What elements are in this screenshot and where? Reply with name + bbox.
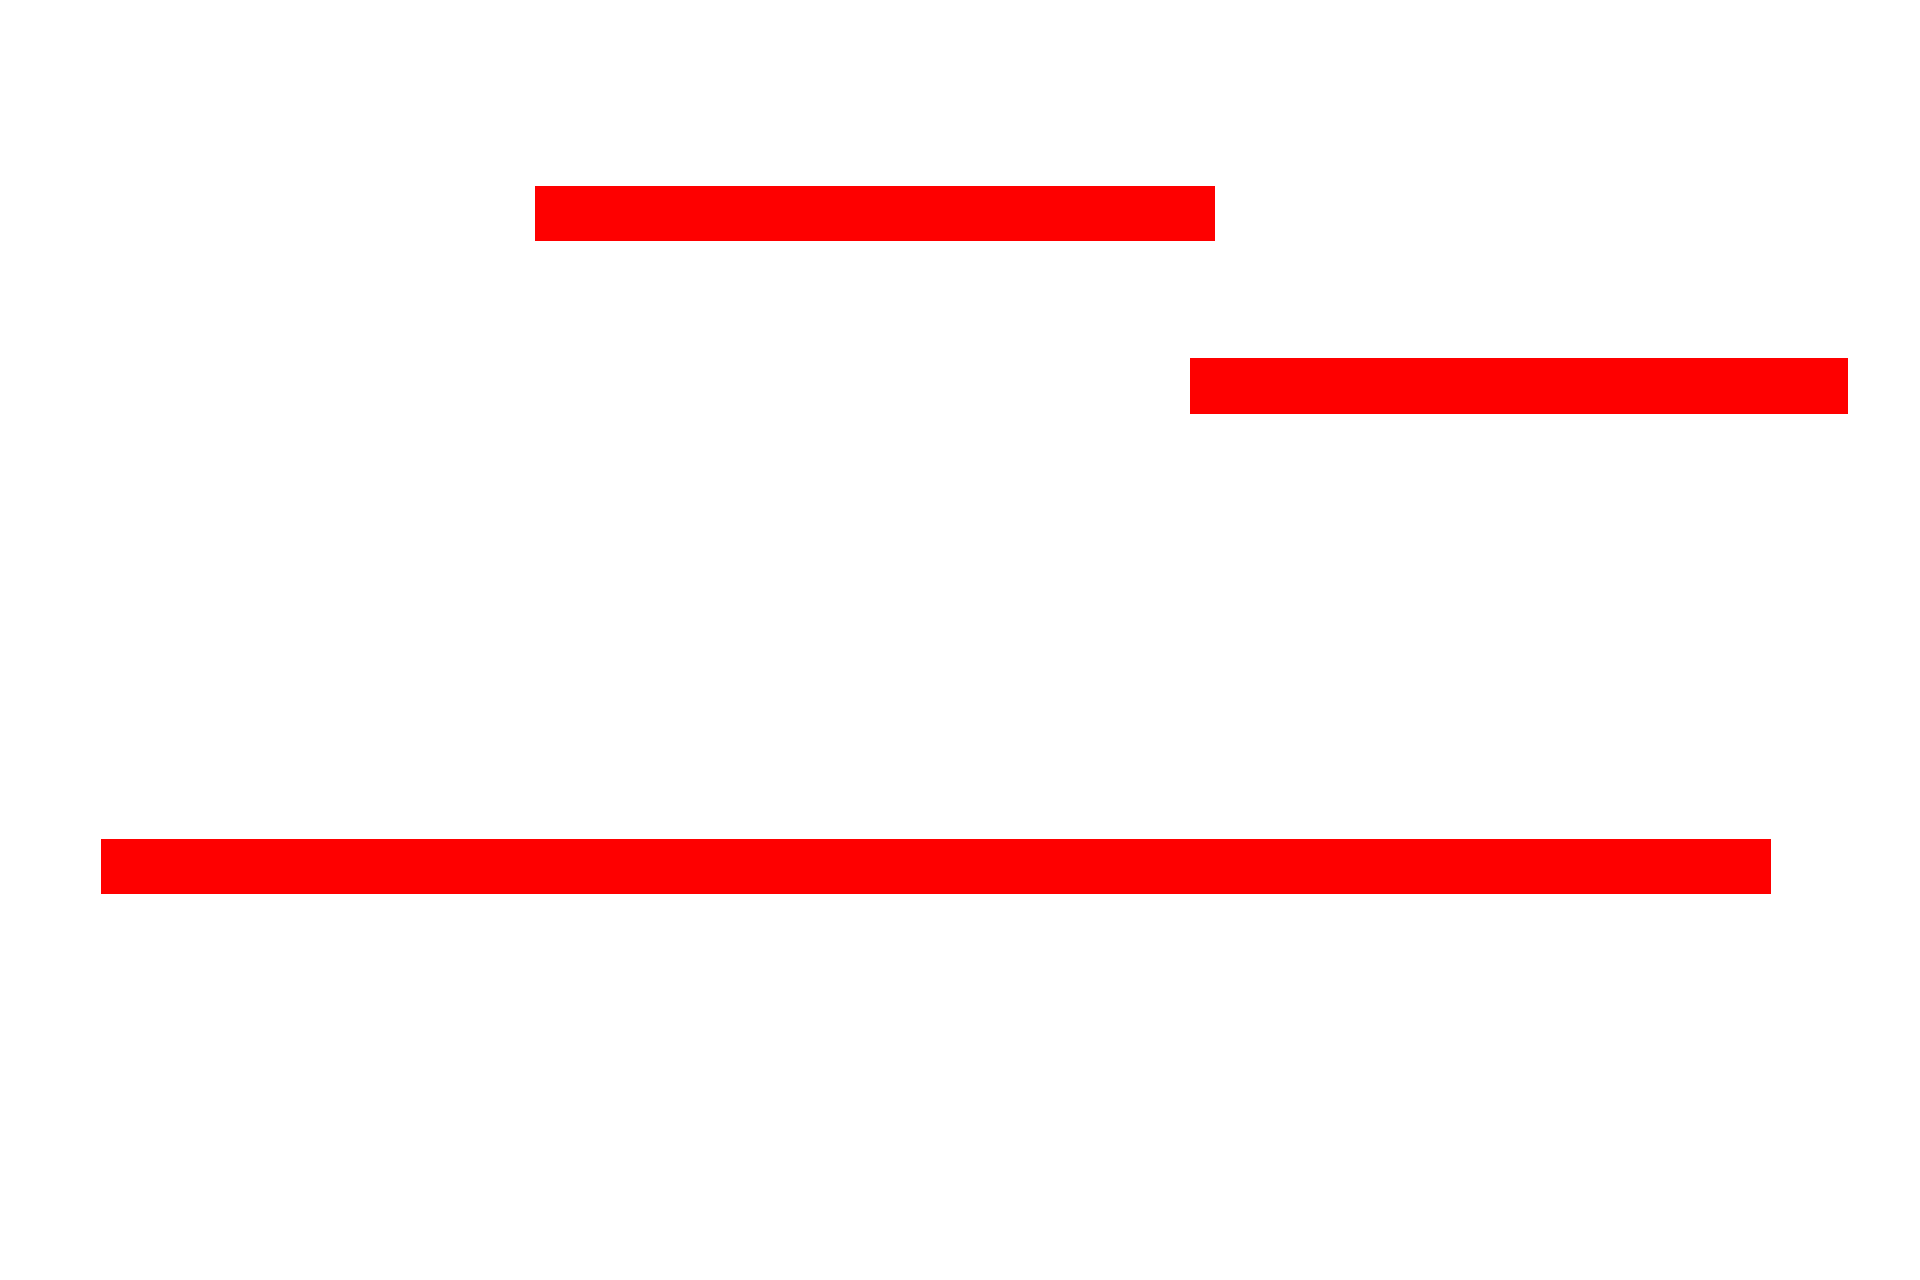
- redaction bar 2 (upper right): [1190, 358, 1848, 414]
- redaction bar 1 (top center): [535, 186, 1215, 241]
- redaction bar 3 (lower wide): [101, 839, 1771, 894]
